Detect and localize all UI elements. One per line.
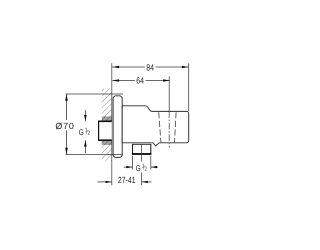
holder hidden cone right dashed line — [175, 112, 177, 142]
dimension G1/2 outlet — [124, 156, 158, 170]
dimension 84 — [112, 63, 188, 111]
dimension 27-41 — [98, 181, 152, 183]
holder axis centerline — [168, 111, 170, 147]
svg-text:Ø70: Ø70 — [55, 121, 74, 131]
dimension 64 — [112, 76, 169, 111]
elbow body with holder profile — [122, 106, 189, 146]
wall hatching — [102, 89, 112, 162]
outlet axis extension line — [141, 145, 143, 162]
G1/2 inlet nipple in wall — [98, 121, 111, 141]
holder hidden cone left dashed line — [159, 112, 161, 142]
dimension Ø70 — [66, 94, 123, 155]
wall gray pad above inlet — [102, 116, 112, 121]
wall face line / extension line — [111, 63, 113, 185]
svg-text:G1/2: G1/2 — [79, 127, 90, 137]
wall gray pad below inlet — [102, 140, 112, 145]
svg-text:64: 64 — [136, 76, 144, 86]
svg-text:27-41: 27-41 — [118, 175, 136, 185]
outlet stub — [132, 144, 152, 154]
dimension G1/2 wall inlet — [84, 110, 86, 153]
escutcheon flange — [113, 96, 122, 158]
svg-text:84: 84 — [146, 62, 154, 72]
svg-text:G1/2: G1/2 — [136, 163, 147, 173]
